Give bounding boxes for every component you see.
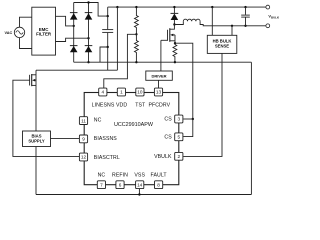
wire node B down to line-sense run	[107, 47, 109, 70]
bias supply box	[23, 131, 51, 147]
svg-text:SENSE: SENSE	[215, 44, 229, 49]
terminal Vbulk-	[266, 24, 270, 28]
wire BIASCTRL to FET gate	[13, 80, 80, 156]
wire ground rail right drop	[250, 62, 252, 194]
svg-text:LINESNS: LINESNS	[92, 102, 115, 108]
transistor Q1 (buck switch)	[161, 25, 175, 44]
diode D5 (freewheel)	[173, 7, 175, 13]
capacitor C1 (input cap)	[102, 16, 113, 47]
svg-text:12: 12	[81, 155, 87, 160]
node bridge top-right junction	[87, 1, 89, 3]
AC source VAC	[14, 27, 24, 37]
diode D1 (bridge top-left)	[70, 12, 78, 19]
node divider top	[135, 6, 137, 8]
node output rail at HB sense	[231, 25, 233, 27]
pin 6 box	[116, 181, 124, 189]
pin 9 box	[79, 135, 87, 143]
node output rail at cap	[244, 25, 246, 27]
wire divider tap to LINESNS	[104, 34, 137, 88]
svg-text:2: 2	[177, 154, 180, 159]
wire VSS to bus	[138, 188, 140, 194]
pin 10 box	[136, 88, 144, 96]
node A (bridge feed to rail)	[107, 15, 109, 17]
wire CS to pin 5	[183, 119, 193, 137]
wire bias FET drain run	[36, 69, 117, 71]
resistor R1 (line divider top)	[135, 7, 139, 34]
wire HB sense right input	[231, 26, 233, 36]
node top rail at HB riser	[211, 6, 213, 8]
transistor Q2 (bias startup FET)	[28, 70, 37, 131]
svg-text:14: 14	[137, 182, 143, 187]
resistor R2 (line divider bottom)	[135, 34, 139, 62]
svg-text:UCC29910APW: UCC29910APW	[114, 122, 154, 128]
svg-text:7: 7	[100, 182, 103, 187]
svg-text:FILTER: FILTER	[36, 31, 52, 36]
svg-text:VBULK: VBULK	[268, 14, 280, 20]
driver box	[146, 71, 173, 80]
wire rail drop x117	[116, 7, 118, 70]
node B (cap bottom junction)	[107, 46, 109, 48]
svg-text:3: 3	[177, 117, 180, 122]
pin 5 box	[175, 133, 183, 141]
svg-text:9: 9	[82, 137, 85, 142]
inductor L1	[174, 21, 183, 24]
pin 11 box	[79, 117, 87, 125]
svg-text:1: 1	[120, 90, 123, 95]
node divider tap	[135, 33, 137, 35]
node top rail / VDD riser	[116, 6, 118, 8]
diode D2 (bridge top-right)	[85, 12, 93, 19]
svg-text:CS: CS	[164, 135, 172, 141]
svg-text:CS: CS	[164, 117, 172, 123]
capacitor C2 (bulk cap)	[241, 7, 250, 26]
svg-text:4: 4	[101, 90, 104, 95]
bridge right column wire	[88, 3, 90, 63]
diode D4 (bridge bottom-right)	[85, 45, 93, 52]
svg-text:REFIN: REFIN	[112, 173, 128, 179]
bridge left column wire	[73, 3, 75, 63]
wire bottom bus	[36, 194, 251, 196]
svg-text:NC: NC	[98, 173, 106, 179]
node CS resistor bottom	[174, 61, 176, 63]
EMC filter box	[32, 7, 56, 55]
wire EMC to bridge right column	[56, 38, 89, 41]
wire return jog to node B	[100, 47, 108, 62]
svg-text:11: 11	[81, 118, 86, 123]
svg-text:TST: TST	[135, 102, 146, 108]
node bridge bottom-right junction	[87, 61, 89, 63]
wire top rail	[108, 6, 266, 8]
pin 13 box	[154, 88, 162, 96]
svg-text:NC: NC	[94, 118, 102, 124]
svg-text:13: 13	[156, 90, 162, 95]
wire pin 3 stub	[183, 118, 193, 120]
node CS line at pin3	[192, 118, 194, 120]
pin 3 box	[175, 115, 183, 123]
terminal Vbulk+	[266, 5, 270, 9]
resistor R3 (current sense)	[173, 43, 177, 62]
svg-text:VAC: VAC	[5, 31, 13, 35]
pin 2 box	[175, 152, 183, 160]
wire CS sense line	[175, 43, 193, 119]
node VSS on bus	[138, 193, 140, 195]
wire bottom bus up to bias supply	[35, 147, 37, 195]
svg-text:DRIVER: DRIVER	[151, 74, 166, 79]
wire bias supply to BIASSNS	[51, 137, 80, 139]
svg-text:VBULK: VBULK	[154, 154, 172, 160]
bridge top rail	[74, 3, 108, 17]
svg-text:VSS: VSS	[134, 173, 145, 179]
wire ground rail	[74, 61, 252, 63]
node divider bottom on ground rail	[135, 61, 137, 63]
node top rail at out cap	[244, 6, 246, 8]
node switch node	[173, 23, 175, 25]
svg-text:5: 5	[177, 135, 180, 140]
wire EMC to bridge left column	[56, 16, 74, 26]
IC U1 UCC29910APW outline	[84, 93, 179, 185]
wire HB sense output to VBULK pin	[183, 53, 222, 156]
pin 8 box	[155, 181, 163, 189]
diode D3 (bridge bottom-left)	[70, 45, 78, 52]
svg-text:FAULT: FAULT	[151, 173, 168, 179]
wire VAC bottom to EMC	[20, 38, 32, 49]
pin 7 box	[97, 181, 105, 189]
svg-text:10: 10	[137, 90, 143, 95]
svg-text:BIASSNS: BIASSNS	[94, 136, 118, 142]
svg-text:SUPPLY: SUPPLY	[28, 138, 45, 143]
svg-text:VDD: VDD	[116, 102, 127, 108]
wire HB sense left input	[211, 7, 213, 35]
pin 1 box	[117, 88, 125, 96]
svg-text:8: 8	[157, 182, 160, 187]
pin 14 box	[136, 181, 144, 189]
wire VAC top to EMC	[20, 17, 32, 27]
pin 12 box	[79, 153, 87, 161]
svg-text:6: 6	[119, 182, 122, 187]
wire gate to driver	[160, 40, 162, 71]
svg-text:PFCDRV: PFCDRV	[148, 102, 170, 108]
HB bulk sense box	[207, 35, 237, 53]
node MOSFET source junction	[174, 42, 176, 44]
pin 4 box	[99, 88, 107, 96]
node diode top on rail	[173, 6, 175, 8]
svg-text:BIASCTRL: BIASCTRL	[94, 155, 120, 161]
wire driver to PFCDRV	[158, 80, 160, 88]
wire rail riser at node A	[107, 7, 109, 16]
